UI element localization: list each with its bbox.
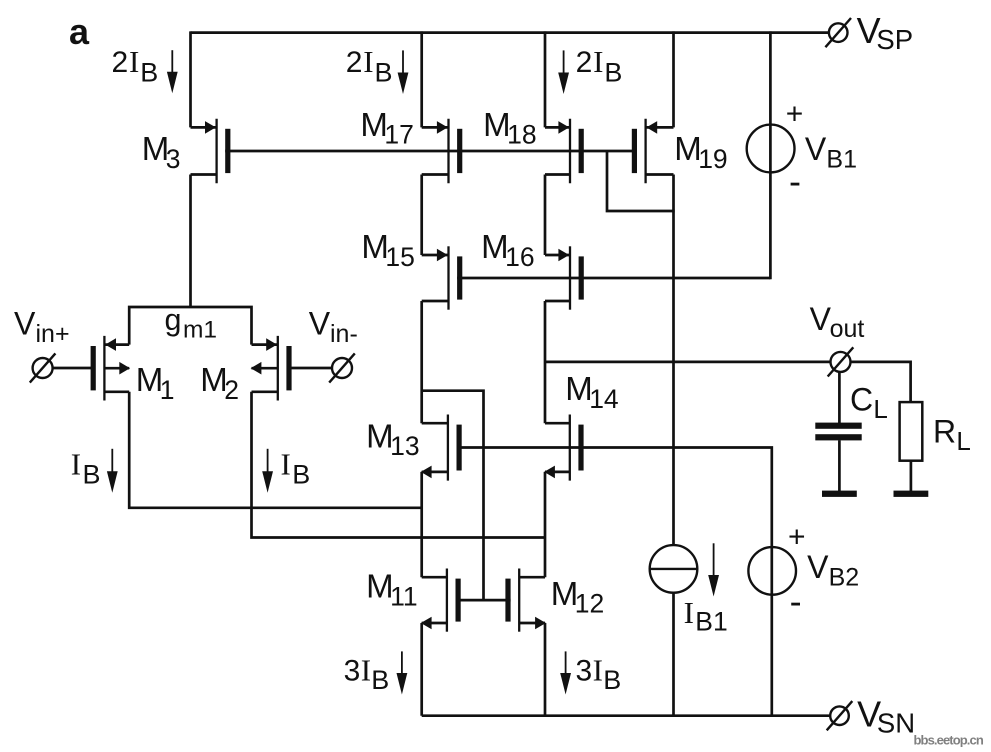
svg-text:V: V [810,301,832,337]
svg-text:in-: in- [330,320,358,348]
svg-text:B1: B1 [826,146,857,174]
svg-text:bbs.eetop.cn: bbs.eetop.cn [914,733,984,748]
svg-text:11: 11 [390,581,418,611]
ground CL [822,491,857,497]
transistor M3 [215,119,217,184]
wire gate connect M11 M12 [456,599,511,602]
terminal Vin+ [33,358,53,378]
svg-text:a: a [69,11,90,52]
terminal Vout [831,352,851,372]
capacitor CL [815,423,861,429]
wire Vout terminal to CL [838,372,841,423]
wire M19 drain down to IB1 [672,175,675,546]
resistor RL [900,402,923,461]
svg-text:3: 3 [576,654,593,687]
wire Vout line from M16 M14 node [545,361,831,364]
transistor M1 [103,336,105,401]
wire CL to ground [838,440,841,491]
voltage source VB2 [748,547,796,595]
current arrow 2IB left [171,50,173,75]
svg-text:SP: SP [876,24,913,55]
ground RL [894,491,929,497]
svg-text:R: R [933,414,956,450]
svg-text:-: - [789,161,801,202]
svg-text:B: B [603,665,621,695]
svg-text:12: 12 [575,589,604,619]
wire M17 source to M15 drain [420,175,423,256]
wire gate line M3 M17 M18 M19 [225,150,637,153]
wire gm1 source rail and risers [129,307,251,345]
svg-text:out: out [830,315,865,343]
transistor M13 [447,415,449,481]
svg-text:1: 1 [160,375,175,405]
wire gate line M13 M14 to VB2 [457,448,772,716]
current arrow 2IB middle [402,50,404,76]
transistor M19 [644,119,646,184]
svg-text:g: g [165,303,182,337]
wire gate line M15 M16 to VB1 [457,277,770,280]
wire VSN rail [422,714,830,717]
svg-text:in+: in+ [36,320,70,348]
transistor M14 [569,415,571,481]
svg-text:B: B [292,460,310,490]
transistor M18 [569,119,571,184]
current arrow IB1 [713,543,715,578]
svg-text:SN: SN [877,708,915,739]
current arrow IB right [267,449,269,475]
svg-text:I: I [361,652,371,687]
wire VSP rail [191,31,829,34]
svg-text:B: B [140,57,158,87]
current arrow 3IB right [565,651,567,676]
wire M1 gate [53,367,92,370]
wire RL to ground [910,461,913,492]
wire M18 source to M16 drain [544,175,547,256]
svg-text:B2: B2 [829,564,860,592]
svg-text:3: 3 [344,654,361,687]
svg-text:2: 2 [112,46,129,79]
wire M3 source down to gm1 tail [189,175,192,308]
wire M1 drain down and across to M13 source node [129,392,422,508]
svg-text:B1: B1 [695,606,727,636]
svg-text:13: 13 [390,431,419,461]
wire IB1 to VSN rail [672,593,675,716]
svg-text:3: 3 [166,144,181,174]
wire M19 gate to drain diode connection [607,151,675,211]
wire M11 source to VSN rail [420,623,423,716]
svg-text:B: B [375,57,393,87]
transistor M17 [447,119,449,184]
voltage source VB1 [747,125,795,173]
svg-text:14: 14 [589,384,618,414]
wire M2 gate [291,367,332,370]
wire M15 source to M13 drain [420,301,423,423]
wire M16 source to M14 drain with Vout tap [544,301,547,423]
terminal Vin- [332,358,352,378]
transistor M16 [569,246,571,309]
svg-text:L: L [956,426,970,456]
wire M18 drain drop from VSP [544,31,547,127]
wire M17 drain drop from VSP [420,31,423,127]
transistor M12 [518,569,520,632]
current arrow 2IB right [563,50,565,76]
current source IB1 [650,545,698,593]
svg-text:I: I [129,44,139,79]
svg-text:-: - [790,581,802,622]
svg-text:+: + [786,97,804,130]
terminal VSP [829,23,848,42]
svg-text:I: I [281,446,291,481]
svg-text:V: V [807,549,829,585]
svg-text:B: B [83,460,101,490]
transistor M2 [277,336,279,401]
wire M13 source down to M11 drain [420,472,423,577]
svg-text:I: I [593,652,603,687]
wire M3 drain drop from VSP [189,31,192,127]
current arrow 3IB left [401,651,403,676]
wire M12 source to VSN rail [544,623,547,716]
wire Vout to RL [850,362,910,402]
svg-text:2: 2 [576,46,593,79]
svg-text:18: 18 [507,120,536,150]
svg-text:2: 2 [346,46,363,79]
svg-text:17: 17 [384,120,413,150]
wire M13 drain branch to M11 M12 gates [421,391,484,600]
svg-text:2: 2 [224,375,239,405]
svg-text:I: I [593,44,603,79]
svg-text:15: 15 [385,242,414,272]
svg-text:I: I [71,446,81,481]
wire M14 source down to M12 drain [544,472,547,577]
wire M2 drain down and across to M14 source node [252,392,546,538]
wire VB1 from VSP through source to cascode gate line [769,31,772,279]
svg-text:I: I [363,44,373,79]
svg-text:16: 16 [505,242,534,272]
svg-text:19: 19 [698,144,727,174]
transistor M11 [446,569,448,632]
svg-text:V: V [805,131,827,167]
transistor M15 [447,246,449,309]
svg-text:V: V [14,305,36,341]
svg-text:V: V [309,305,331,341]
current arrow IB left [111,449,113,475]
wire M19 source drop from VSP [672,31,675,127]
svg-text:B: B [371,665,389,695]
terminal VSN [830,706,849,725]
svg-text:B: B [604,57,622,87]
svg-text:L: L [873,394,887,424]
svg-text:I: I [684,595,694,630]
svg-text:+: + [788,521,806,554]
svg-text:m1: m1 [183,316,217,343]
svg-text:C: C [850,382,873,418]
